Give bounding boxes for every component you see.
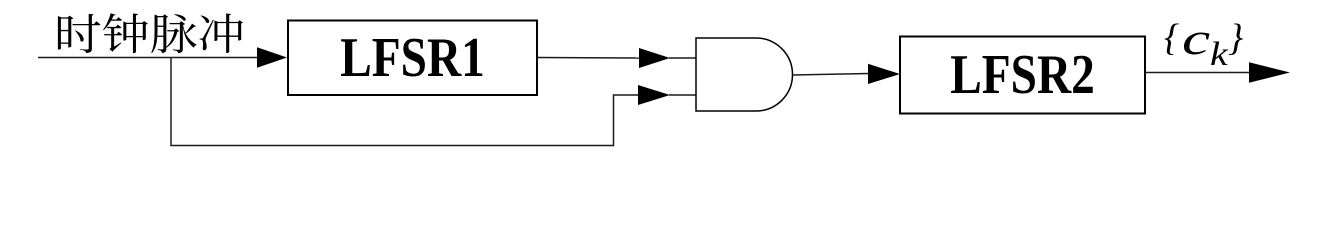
block LFSR2 label bbox=[950, 44, 1095, 106]
svg-text:c: c bbox=[1182, 13, 1210, 64]
wire: clock input horizontal bbox=[38, 57, 258, 59]
wire: LFSR2 output bbox=[1145, 72, 1251, 74]
wire: stub lower arrow to gate bbox=[669, 94, 696, 96]
arrowhead into LFSR1 bbox=[257, 47, 287, 67]
label: output sequence braces c_k bbox=[1164, 17, 1179, 59]
arrowhead into LFSR2 bbox=[868, 64, 900, 84]
arrowhead into AND gate lower input bbox=[638, 85, 670, 105]
block LFSR1 box bbox=[288, 21, 537, 96]
AND gate U1 bbox=[696, 38, 793, 111]
wire: LFSR1 output to AND gate upper input bbox=[538, 57, 641, 60]
svg-text:}: } bbox=[1228, 17, 1243, 59]
wire: stub upper arrow to gate bbox=[669, 57, 696, 59]
block LFSR2 box bbox=[900, 37, 1145, 114]
svg-text:LFSR2: LFSR2 bbox=[950, 44, 1095, 106]
svg-text:k: k bbox=[1210, 36, 1228, 74]
arrowhead into AND gate upper input bbox=[639, 48, 670, 68]
block LFSR1 label bbox=[340, 27, 485, 89]
wire: AND gate output to LFSR2 bbox=[793, 74, 870, 76]
label: clock pulse text (shi zhong mai chong) bbox=[58, 13, 243, 53]
wire: feedback from clock node down and around bbox=[171, 58, 639, 146]
svg-text:{: { bbox=[1164, 17, 1179, 59]
output arrowhead bbox=[1249, 62, 1290, 82]
svg-text:LFSR1: LFSR1 bbox=[340, 27, 485, 89]
